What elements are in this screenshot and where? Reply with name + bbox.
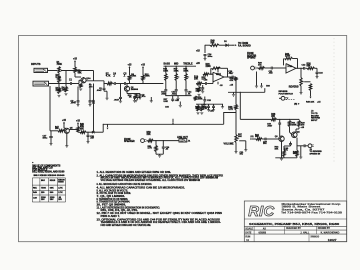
svg-text:VOLUME: VOLUME bbox=[224, 143, 234, 145]
svg-text:750K: 750K bbox=[41, 187, 46, 189]
svg-text:3. ALL MICROFARAD CAPACITORS C: 3. ALL MICROFARAD CAPACITORS CAN BE 1/3 … bbox=[97, 183, 153, 186]
svg-text:R48 22K: R48 22K bbox=[306, 101, 315, 104]
svg-text:8. TRANSISTOR Q1 Q5 PM3906.: 8. TRANSISTOR Q1 Q5 PM3906. bbox=[97, 198, 129, 201]
svg-text:J. HALL: J. HALL bbox=[300, 232, 310, 235]
svg-text:10. FET Q5 3N5458.: 10. FET Q5 3N5458. bbox=[97, 203, 127, 206]
svg-text:SPRING IN: SPRING IN bbox=[310, 153, 321, 155]
svg-text:DRAWN BY: DRAWN BY bbox=[318, 227, 331, 230]
svg-text:22K: 22K bbox=[196, 90, 200, 92]
svg-text:FRD AND EITHER DISKARD OR TANT: FRD AND EITHER DISKARD OR TANTALUM. bbox=[101, 224, 152, 227]
svg-text:B5J KB15 KB100 RG60: B5J KB15 KB100 RG60 bbox=[34, 175, 66, 177]
svg-text:SCHEMATIC, PREAMP B5J, KB15, K: SCHEMATIC, PREAMP B5J, KB15, KB100, RG60 bbox=[249, 222, 340, 226]
svg-text:22K: 22K bbox=[147, 134, 151, 136]
svg-text:FOOTSWITCH: FOOTSWITCH bbox=[279, 93, 294, 95]
svg-text:BASS: BASS bbox=[164, 62, 171, 65]
svg-text:AS: AS bbox=[263, 227, 267, 230]
svg-text:10K: 10K bbox=[275, 148, 279, 150]
svg-text:12. PIN 7 OF IC1 NOT USED IN M: 12. PIN 7 OF IC1 NOT USED IN MODEL. NOT … bbox=[97, 213, 223, 215]
svg-text:1M: 1M bbox=[62, 90, 65, 92]
svg-text:.0047: .0047 bbox=[161, 92, 167, 95]
svg-text:5.6M: 5.6M bbox=[56, 77, 61, 79]
svg-text:+15: +15 bbox=[128, 65, 133, 67]
svg-text:68K: 68K bbox=[50, 187, 54, 189]
svg-text:750K: 750K bbox=[57, 64, 63, 66]
svg-text:19027: 19027 bbox=[328, 239, 338, 242]
svg-text:220K: 220K bbox=[206, 66, 212, 68]
svg-text:4.7K: 4.7K bbox=[202, 78, 207, 81]
svg-text:.0047: .0047 bbox=[114, 99, 120, 102]
svg-text:7. Q1, Q5 LM3906.: 7. Q1, Q5 LM3906. bbox=[97, 196, 126, 198]
svg-text:100K: 100K bbox=[183, 70, 188, 72]
svg-text:IC1A: IC1A bbox=[216, 73, 221, 76]
svg-text:Tel 714-545-5574 Fax 714-754-: Tel 714-545-5574 Fax 714-754-0135 bbox=[281, 211, 343, 215]
svg-text:13. OPTIONAL CAPACITORS C10 AN: 13. OPTIONAL CAPACITORS C10 AND C44 FOR … bbox=[97, 219, 221, 222]
svg-text:100u: 100u bbox=[208, 56, 213, 58]
svg-text:5. ALL VOLTAGES IN VOLTS.: 5. ALL VOLTAGES IN VOLTS. bbox=[97, 190, 129, 193]
svg-text:100K: 100K bbox=[163, 70, 168, 72]
svg-text:10K: 10K bbox=[255, 136, 259, 138]
svg-text:25V: 25V bbox=[41, 199, 45, 201]
svg-text:4. ALL MICROFARAD CAPACITORS C: 4. ALL MICROFARAD CAPACITORS CAN BE 1/3 … bbox=[97, 186, 186, 189]
svg-text:INPUT: INPUT bbox=[311, 120, 318, 122]
svg-text:.0047: .0047 bbox=[96, 89, 102, 92]
svg-text:TREBLE: TREBLE bbox=[183, 63, 193, 65]
svg-text:SPEAKER: SPEAKER bbox=[124, 140, 135, 143]
svg-text:P.A. BOARD: P.A. BOARD bbox=[238, 44, 251, 47]
svg-text:6. POTS, R43 TO R49 10K9.: 6. POTS, R43 TO R49 10K9. bbox=[97, 192, 132, 195]
svg-text:IC1B: IC1B bbox=[288, 66, 293, 68]
svg-text:Q1A: Q1A bbox=[86, 77, 91, 80]
svg-text:100K: 100K bbox=[131, 76, 136, 78]
svg-text:6/28/88: 6/28/88 bbox=[259, 233, 267, 235]
svg-text:MID: MID bbox=[174, 63, 179, 65]
svg-text:10K: 10K bbox=[194, 78, 198, 80]
svg-text:VOLTAGE RATINGS UNLESS MARKED: VOLTAGE RATINGS UNLESS MARKED OTHERWISE.… bbox=[101, 179, 201, 182]
svg-text:TERMINALS 4 AND 8 OF IC1 AND/O: TERMINALS 4 AND 8 OF IC1 AND/OR IC2 RESP… bbox=[101, 221, 222, 224]
svg-text:.0047: .0047 bbox=[71, 102, 77, 105]
svg-text:68K: 68K bbox=[78, 72, 82, 74]
svg-text:.0047: .0047 bbox=[267, 124, 273, 127]
svg-text:220K: 220K bbox=[56, 90, 62, 92]
svg-text:68K: 68K bbox=[307, 65, 311, 67]
svg-text:*: * bbox=[32, 161, 33, 165]
svg-text:100K: 100K bbox=[292, 124, 297, 126]
svg-text:INPUTS: INPUTS bbox=[31, 62, 41, 66]
svg-text:2.7K: 2.7K bbox=[58, 192, 63, 194]
svg-text:(B): (B) bbox=[294, 104, 297, 106]
svg-text:10K: 10K bbox=[55, 128, 59, 130]
svg-text:RUN: RUN bbox=[245, 236, 250, 238]
svg-text:R51, C30, D4, Q5, J2, P51.: R51, C30, D4, Q5, J2, P51. bbox=[101, 209, 139, 212]
svg-text:47K: 47K bbox=[230, 79, 234, 82]
svg-text:25V: 25V bbox=[50, 199, 54, 201]
svg-text:DRAWING NO: DRAWING NO bbox=[311, 236, 320, 239]
svg-text:+15: +15 bbox=[73, 59, 78, 61]
svg-text:+15: +15 bbox=[62, 120, 67, 122]
svg-text:K. MARCHENKO: K. MARCHENKO bbox=[321, 232, 340, 235]
svg-text:SPRING: SPRING bbox=[247, 57, 256, 59]
svg-text:+15: +15 bbox=[141, 65, 146, 67]
svg-text:100K: 100K bbox=[174, 70, 179, 72]
svg-text:1. ALL RESISTORS IN OHMS AND E: 1. ALL RESISTORS IN OHMS AND EITHER 5W% … bbox=[97, 171, 172, 174]
svg-text:4.7K: 4.7K bbox=[228, 108, 233, 111]
svg-text:RG60: RG60 bbox=[58, 181, 64, 183]
svg-text:KB15: KB15 bbox=[50, 180, 56, 182]
svg-text:11. LAST REFERENCES DESIGNATIO: 11. LAST REFERENCES DESIGNATION IN SCHEM… bbox=[97, 206, 161, 209]
svg-text:SCALE: SCALE bbox=[245, 227, 253, 230]
svg-text:5.6K: 5.6K bbox=[164, 101, 169, 103]
svg-text:100u: 100u bbox=[43, 137, 48, 139]
svg-text:4.7K: 4.7K bbox=[58, 186, 63, 189]
svg-text:REVERB: REVERB bbox=[289, 87, 299, 89]
svg-text:4.7K: 4.7K bbox=[106, 75, 111, 78]
svg-text:10K: 10K bbox=[238, 136, 242, 138]
svg-text:CHECKED BY: CHECKED BY bbox=[286, 228, 301, 230]
svg-text:220K: 220K bbox=[285, 56, 291, 58]
svg-text:10K: 10K bbox=[80, 125, 84, 127]
svg-text:4.7K: 4.7K bbox=[148, 147, 153, 150]
svg-text:100K: 100K bbox=[145, 76, 150, 78]
svg-text:PINS 6 AND 7.: PINS 6 AND 7. bbox=[101, 215, 121, 218]
svg-text:100K: 100K bbox=[198, 99, 203, 101]
svg-text:DATE: DATE bbox=[245, 232, 251, 235]
svg-text:2N3904: 2N3904 bbox=[131, 88, 139, 91]
svg-text:+15: +15 bbox=[76, 121, 81, 123]
svg-text:B5J, KB15, KB100, AND RG60: B5J, KB15, KB100, AND RG60 bbox=[32, 170, 65, 173]
svg-text:25V: 25V bbox=[58, 199, 62, 201]
svg-text:9. TRANSISTOR Q2 Q4 PN3904.: 9. TRANSISTOR Q2 Q4 PN3904. bbox=[97, 201, 131, 204]
svg-text:(A): (A) bbox=[251, 135, 254, 138]
svg-text:RIC: RIC bbox=[248, 204, 274, 220]
